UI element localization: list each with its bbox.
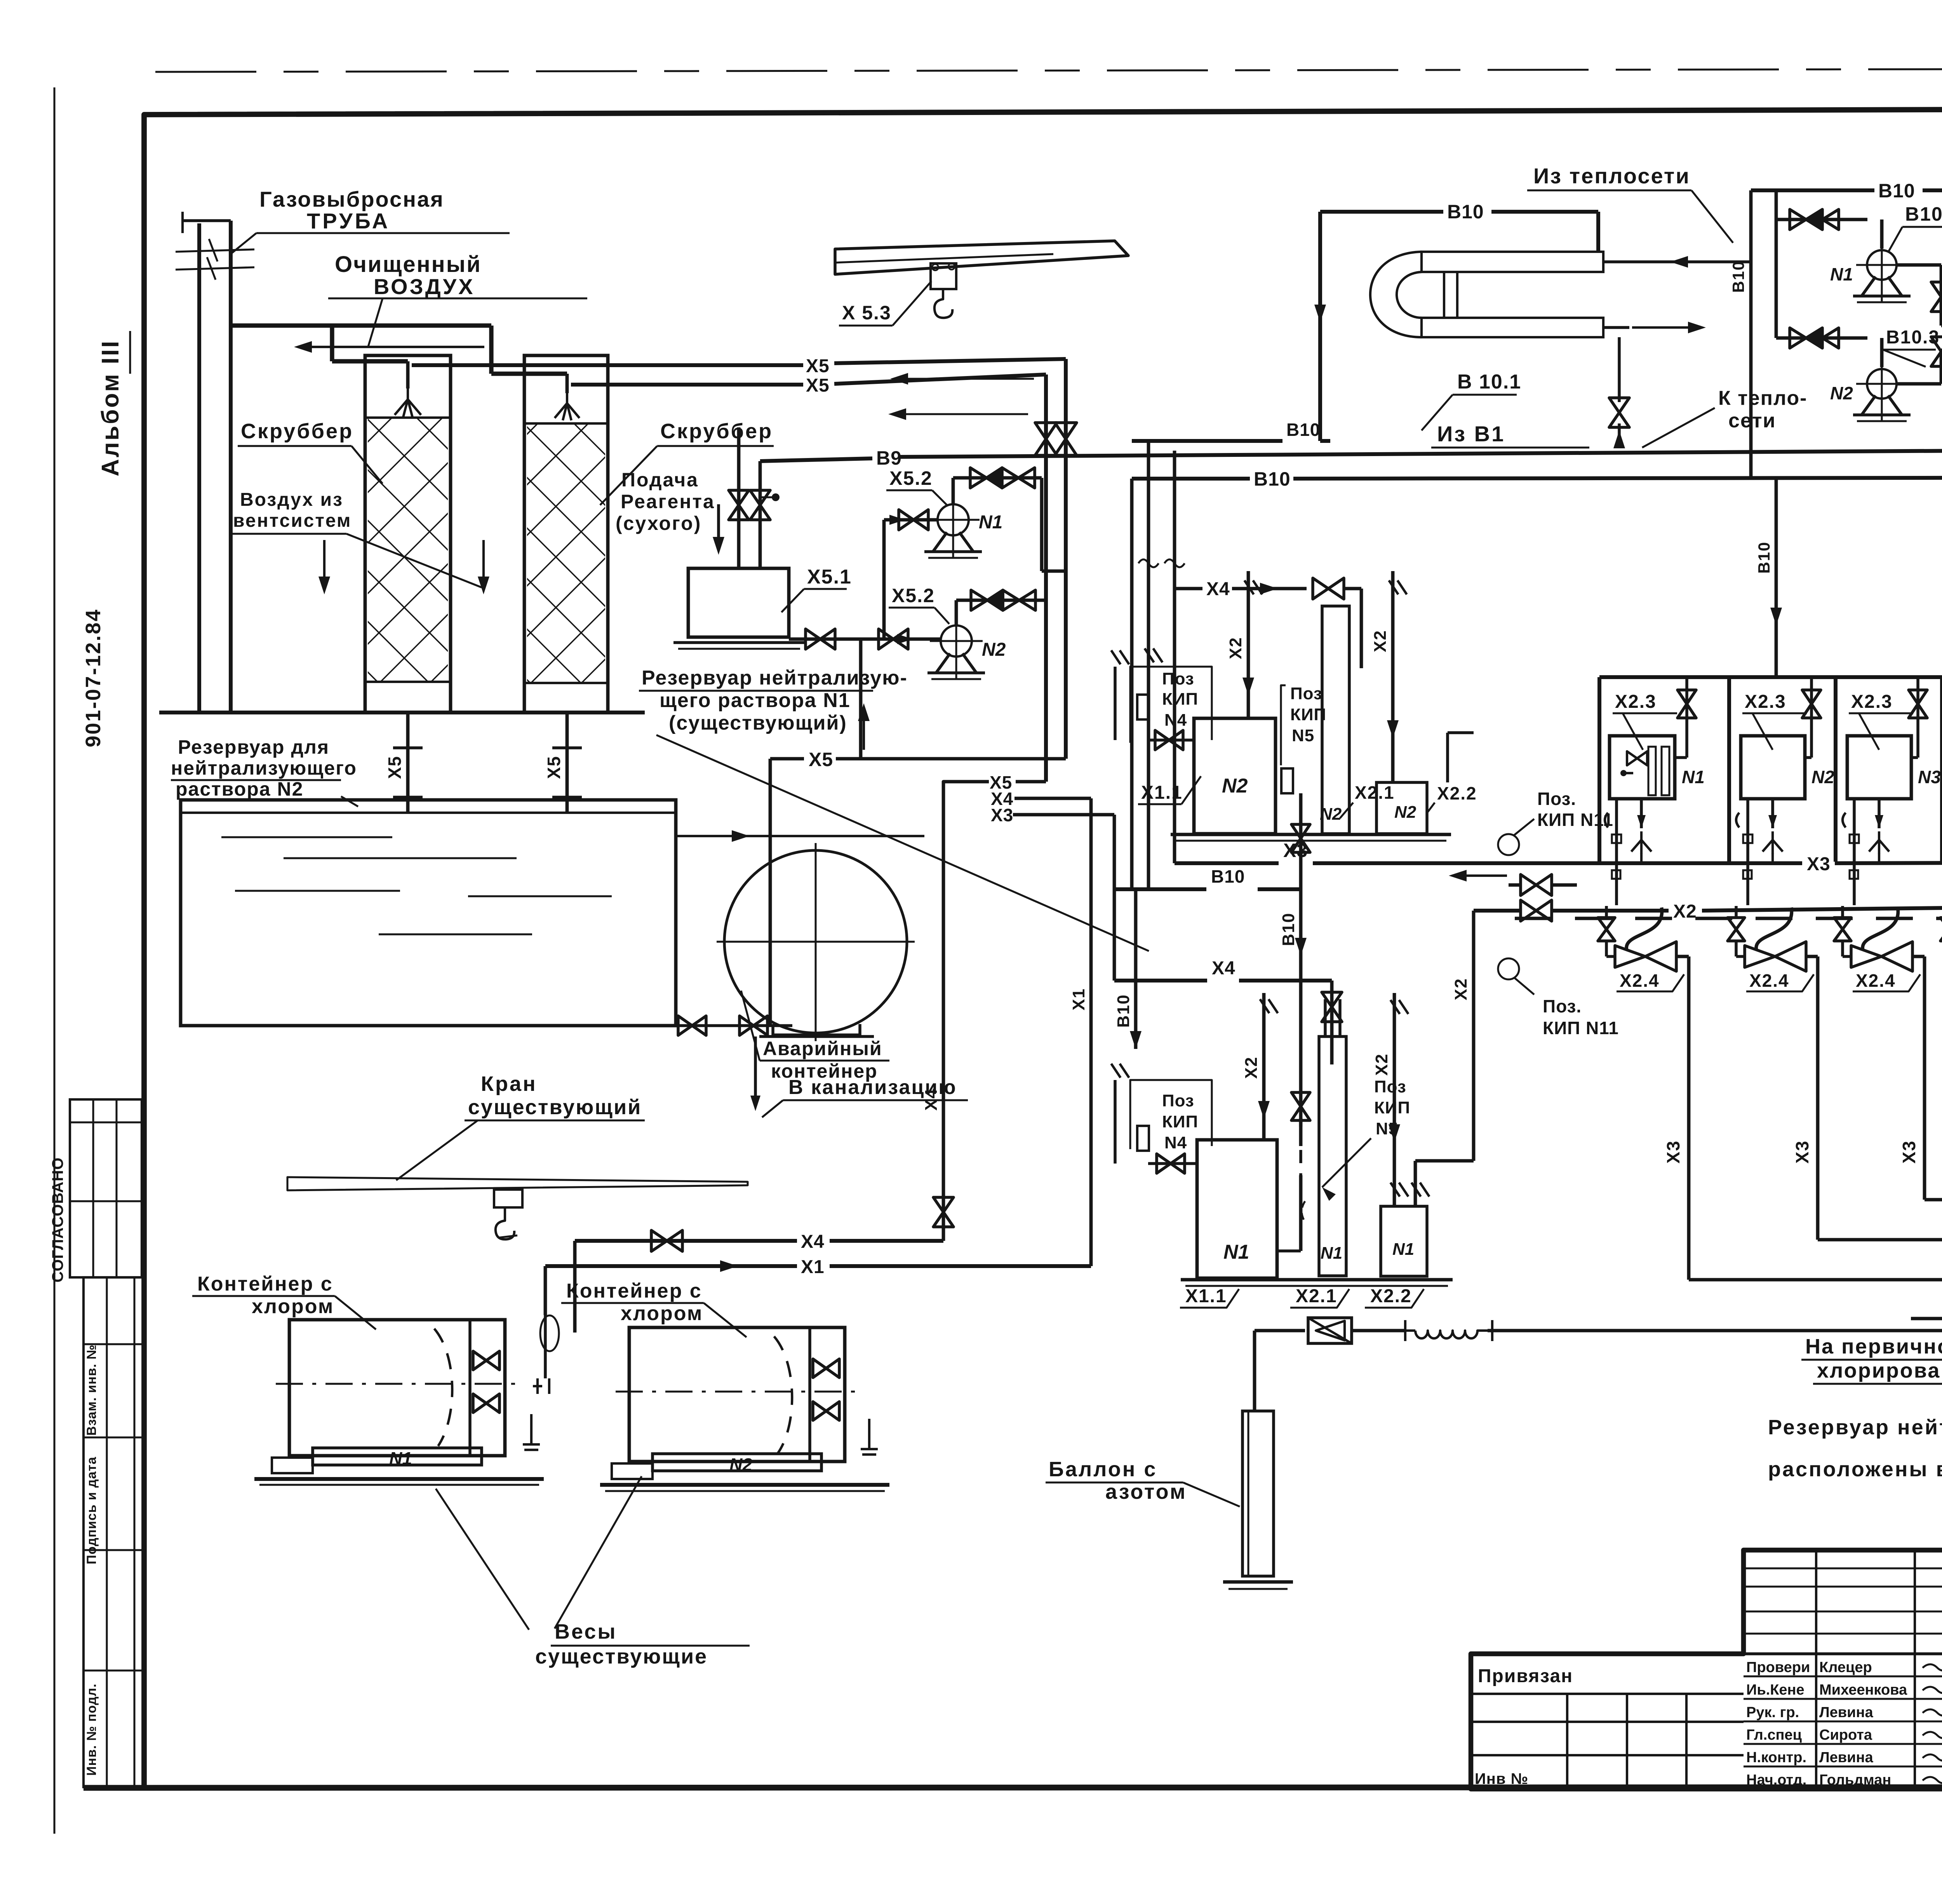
svg-text:На первичное: На первичное (1805, 1335, 1942, 1358)
svg-text:Из теплосети: Из теплосети (1533, 164, 1690, 188)
svg-text:В 10.1: В 10.1 (1457, 371, 1521, 393)
line X3 main (1175, 861, 1279, 865)
svg-text:Поз: Поз (1374, 1077, 1406, 1096)
tank X1.1 N1 lower (1197, 1140, 1277, 1278)
ground line under scrubbers (159, 711, 645, 714)
cell N3 X3-X2 connector (1850, 870, 1858, 879)
exchanger drain valve (1618, 337, 1621, 402)
pump N1 suction riser (882, 520, 886, 639)
svg-text:КИП: КИП (1374, 1098, 1410, 1117)
svg-text:N1: N1 (979, 512, 1002, 533)
valve pair B10.3 upper (1776, 218, 1867, 221)
riser B9 to X3 (1173, 451, 1176, 863)
jog from X2 riser into tank X2.2 lower (1415, 1159, 1474, 1163)
svg-text:В канализацию: В канализацию (788, 1076, 957, 1099)
svg-text:901-07-12.84: 901-07-12.84 (82, 608, 105, 747)
riser X2 to tank X1.1 lower (1262, 993, 1266, 1140)
svg-text:Резервуар нейтрализующего рас: Резервуар нейтрализующего раствора N2 и … (1768, 1416, 1942, 1439)
pump N2 discharge with valves (955, 600, 958, 625)
tank X5.1 feed arrow (717, 504, 720, 546)
flow arrow up on X5 (863, 712, 865, 750)
svg-text:Х2.3: Х2.3 (1851, 692, 1893, 712)
svg-text:Поз: Поз (1162, 669, 1194, 688)
riser X1 (1089, 798, 1093, 1266)
svg-text:Х3: Х3 (1663, 1140, 1683, 1164)
nitrogen cylinder (1242, 1411, 1274, 1576)
riser B10 down (1134, 889, 1138, 1049)
svg-text:Х1: Х1 (801, 1257, 825, 1277)
svg-text:Х4: Х4 (1212, 958, 1236, 979)
valve top cell N1 (1685, 677, 1688, 758)
valve under KIP N5 (1299, 793, 1303, 863)
pump N2 discharge valve (1897, 382, 1941, 386)
svg-text:N2: N2 (1394, 803, 1416, 822)
riser X2 long (1472, 911, 1476, 1161)
line X1 bottom (545, 1264, 797, 1268)
existing crane rail (287, 1177, 748, 1190)
pipe break marks (176, 249, 254, 252)
svg-text:Х2: Х2 (1242, 1056, 1261, 1079)
svg-text:Х3: Х3 (1807, 854, 1831, 874)
svg-text:В9: В9 (876, 447, 902, 469)
valve X3-X2 transfer 2 (1521, 900, 1552, 921)
svg-text:Контейнер с: Контейнер с (566, 1280, 702, 1302)
gas exhaust pipe (double riser) (197, 223, 201, 712)
ground under lower tanks (1181, 1278, 1453, 1282)
svg-text:Х5.1: Х5.1 (807, 566, 852, 588)
svg-text:Привязан: Привязан (1478, 1666, 1573, 1686)
svg-text:Провери: Провери (1746, 1659, 1810, 1676)
ejector X2.4 cell N3 (1851, 946, 1881, 967)
svg-text:В10: В10 (1755, 541, 1773, 573)
container drain line (676, 1024, 792, 1027)
cell N3 drop tube (1863, 908, 1898, 949)
svg-text:расположены вне здания.: расположены вне здания. (1768, 1458, 1942, 1481)
reservoir solution N2 tank (181, 800, 676, 1026)
ground under upper tanks (1171, 833, 1451, 836)
svg-text:Х2: Х2 (1371, 630, 1390, 652)
teploset inlet pipe (1603, 260, 1751, 263)
svg-text:раствора N2: раствора N2 (176, 778, 303, 800)
riser B10 center (1299, 863, 1303, 1146)
svg-text:Х2.3: Х2.3 (1615, 692, 1657, 712)
svg-text:В10: В10 (1114, 994, 1133, 1028)
svg-text:N1: N1 (1223, 1241, 1249, 1263)
svg-text:Подпись и дата: Подпись и дата (84, 1456, 99, 1564)
signature squiggles (1923, 1663, 1942, 1671)
svg-text:N2: N2 (1222, 775, 1248, 797)
trolley between containers (540, 1315, 559, 1351)
left strip lower boxes (84, 1277, 144, 1787)
svg-text:ВОЗДУХ: ВОЗДУХ (374, 274, 475, 299)
svg-text:Х5: Х5 (806, 375, 830, 396)
svg-text:Взам. инв. №: Взам. инв. № (84, 1344, 99, 1435)
svg-text:Х5.2: Х5.2 (892, 585, 935, 606)
pump X5.2 N2 (941, 625, 972, 657)
svg-text:(существующий): (существующий) (669, 712, 847, 734)
heat exchanger supply riser (1318, 212, 1322, 441)
left strip upper boxes (70, 1099, 142, 1277)
pump B10 N2 (1880, 338, 1884, 367)
svg-text:Из В1: Из В1 (1437, 422, 1505, 446)
svg-text:В10: В10 (1211, 866, 1245, 887)
line B10 into tank B10.2 (1941, 324, 1942, 327)
svg-text:хлором: хлором (252, 1295, 334, 1318)
svg-text:N1: N1 (1682, 767, 1705, 787)
svg-text:Х2: Х2 (1673, 901, 1697, 922)
svg-text:КИП: КИП (1162, 1112, 1198, 1131)
line X5 upper (412, 363, 803, 367)
chlorinator cell N4 frame (1940, 677, 1942, 862)
outer thin left border (54, 87, 56, 1834)
svg-text:Весы: Весы (555, 1620, 617, 1643)
svg-text:КИП N11: КИП N11 (1543, 1018, 1619, 1038)
valve top cell N2 (1810, 677, 1813, 758)
frame bottom line (84, 1787, 1942, 1788)
instrument box KIP N4 upper (1130, 667, 1212, 743)
svg-text:Х2.2: Х2.2 (1370, 1286, 1412, 1306)
outer thin top border (dashed) (155, 68, 1942, 72)
tank X5.1 outlet line (789, 638, 941, 641)
scrubber column 1 (365, 355, 451, 712)
flex coil (1404, 1320, 1406, 1341)
gauge KIP N11 upper (1498, 834, 1519, 855)
svg-text:Инв. № подл.: Инв. № подл. (84, 1683, 99, 1776)
riser B10 upper (1147, 441, 1150, 889)
svg-text:хлорирование: хлорирование (1817, 1359, 1942, 1382)
ejector X2.4 cell N2 (1745, 946, 1775, 967)
instrument box KIP N4 lower (1130, 1080, 1212, 1149)
svg-text:КИП N11: КИП N11 (1537, 810, 1613, 830)
svg-text:Х2.1: Х2.1 (1355, 782, 1395, 803)
wire pipe to scrubbers (231, 323, 491, 327)
svg-text:Иь.Кене: Иь.Кене (1746, 1682, 1805, 1698)
svg-text:Подача: Подача (621, 469, 699, 491)
valve drop cell N3 (1841, 906, 1844, 918)
pump B10 N1 (1880, 219, 1884, 249)
valve pump N2 suction (879, 629, 908, 649)
line E2 mid (1352, 1329, 1405, 1333)
valve on X5 riser 1 (1055, 423, 1077, 455)
svg-text:хлором: хлором (621, 1302, 703, 1325)
chlorinator N3 tank (1847, 736, 1911, 799)
valve pair B10.3 lower (1776, 336, 1867, 340)
nitrogen cylinder riser (1253, 1331, 1256, 1411)
X5 flow arrows (899, 378, 1034, 380)
scrubber column 2 (524, 355, 608, 712)
svg-text:Поз.: Поз. (1537, 789, 1576, 809)
title block annex rows (1471, 1693, 1744, 1695)
svg-text:Х5: Х5 (809, 749, 833, 770)
svg-text:Х2.4: Х2.4 (1620, 970, 1660, 991)
tank X5.1 feed pipes with valves (737, 427, 741, 568)
tank X2.1 N1 lower narrow (1319, 1036, 1346, 1276)
cell N1 X3-X2 connector (1612, 870, 1620, 879)
svg-text:(сухого): (сухого) (616, 512, 701, 534)
title block outline (1471, 1550, 1942, 1789)
svg-text:Аварийный: Аварийный (763, 1038, 882, 1059)
svg-text:Клецер: Клецер (1819, 1659, 1872, 1676)
chlorine container N2 (629, 1327, 845, 1462)
valve on B10 center riser (1291, 1092, 1310, 1120)
X5 drop pipe left (406, 712, 410, 813)
pump N1 discharge valve (1897, 263, 1941, 267)
svg-text:Очищенный: Очищенный (335, 252, 482, 277)
svg-text:N3: N3 (1918, 767, 1941, 787)
cell N2 X3-X2 connector (1743, 870, 1752, 879)
riser X2 into tank X2.2 upper (1391, 571, 1395, 782)
crane trolley and hook (494, 1190, 522, 1207)
teploset outlet arrow (1603, 326, 1629, 329)
chlorinator N2 tank (1741, 736, 1805, 799)
X5 riser right 1 (1064, 359, 1068, 759)
cylinder ground (1223, 1580, 1293, 1584)
svg-text:N1: N1 (1321, 1244, 1342, 1263)
svg-text:В10: В10 (1279, 913, 1298, 946)
chlorinator N1 spray unit (1615, 799, 1618, 862)
scrubber 2 spray nozzle (555, 393, 579, 420)
cell N2 drop tube (1756, 908, 1792, 949)
svg-text:В10 3: В10 3 (1905, 203, 1942, 225)
tank X2.2 side pipe (1446, 733, 1449, 782)
ejector outlet cell N2 (1806, 955, 1818, 958)
svg-text:Х2.4: Х2.4 (1856, 970, 1896, 991)
ejector outlet cell N3 (1912, 955, 1925, 958)
line X4 upper (1175, 587, 1202, 591)
svg-text:В10: В10 (1286, 420, 1320, 440)
svg-text:Х5.2: Х5.2 (889, 467, 933, 489)
bundle elbow X4 down (943, 782, 989, 1241)
junction X4 valve (1318, 979, 1332, 982)
monorail beam (835, 241, 1128, 274)
chlorinator N3 spray unit (1853, 799, 1856, 862)
svg-text:Михеенкова: Михеенкова (1819, 1682, 1907, 1698)
svg-text:N2: N2 (982, 639, 1006, 660)
svg-text:Х3: Х3 (1283, 840, 1308, 861)
svg-text:Воздух из: Воздух из (240, 490, 343, 510)
svg-text:Поз: Поз (1162, 1091, 1194, 1110)
clean air flow arrow (303, 346, 484, 348)
svg-text:Х4: Х4 (801, 1232, 825, 1252)
svg-text:Кран: Кран (481, 1072, 537, 1096)
svg-text:нейтрализующего: нейтрализующего (171, 757, 357, 779)
svg-text:N2: N2 (1830, 383, 1853, 403)
svg-text:Альбом III: Альбом III (97, 340, 124, 476)
svg-text:N1: N1 (1830, 264, 1853, 284)
line B10 long (1132, 477, 1250, 481)
pump N1 discharge with valves (952, 478, 955, 504)
gauge KIP N11 lower (1498, 958, 1519, 979)
line E2 nitrogen (1255, 1329, 1305, 1333)
svg-text:СОГЛАСОВАНО: СОГЛАСОВАНО (49, 1157, 66, 1282)
check valve (1308, 1318, 1352, 1343)
line B10 exchanger top (1320, 210, 1443, 214)
svg-text:Х1.1: Х1.1 (1185, 1286, 1227, 1306)
tank X2.2 N2 (1376, 782, 1427, 834)
svg-text:существующий: существующий (468, 1096, 642, 1119)
line B10 top right (1751, 188, 1874, 192)
outlet riser to X5 line (859, 639, 863, 759)
valve on X4 riser (933, 1197, 954, 1227)
valve on X5 riser 2 (1035, 423, 1057, 455)
svg-text:Х1.1: Х1.1 (1141, 782, 1183, 803)
svg-text:существующие: существующие (535, 1645, 708, 1668)
container N1 scale platform (313, 1448, 482, 1465)
riser X2 to tank X2.2 lower (1393, 993, 1396, 1206)
svg-text:Х2.1: Х2.1 (1296, 1286, 1337, 1306)
scrubber 1 spray nozzle (395, 388, 421, 417)
hoist trolley X5.3 (931, 263, 956, 289)
svg-text:КИП: КИП (1162, 690, 1198, 709)
svg-text:N5: N5 (1292, 726, 1314, 745)
container N2 scale platform (653, 1454, 821, 1471)
svg-text:Н.контр.: Н.контр. (1746, 1749, 1806, 1766)
svg-text:Контейнер с: Контейнер с (197, 1273, 333, 1295)
reservoir overflow line (676, 835, 924, 837)
svg-text:Х2: Х2 (1451, 978, 1470, 1000)
svg-text:Сирота: Сирота (1819, 1727, 1872, 1743)
riser B10 to chlorinator bank (1775, 477, 1778, 677)
tank X5.1 (688, 568, 789, 637)
svg-text:В10: В10 (1729, 260, 1747, 293)
line X5 lower (571, 383, 803, 387)
svg-text:В10: В10 (1878, 180, 1915, 202)
svg-text:ТРУБА: ТРУБА (307, 209, 390, 233)
svg-text:В10: В10 (1254, 468, 1291, 490)
chlorinator N1 tank (1610, 736, 1675, 799)
svg-text:Х3: Х3 (1899, 1140, 1919, 1164)
svg-text:В10: В10 (1447, 201, 1484, 223)
line X4 bottom (575, 1239, 797, 1243)
svg-text:Резервуар нейтрализую-: Резервуар нейтрализую- (642, 667, 908, 689)
line X5 from tank bottom (770, 757, 804, 761)
line X2 manifold (1474, 909, 1521, 913)
tank X1.1 N2 (1194, 718, 1276, 834)
drain to sewer (754, 1036, 757, 1106)
svg-text:Х5: Х5 (806, 356, 830, 376)
svg-text:Поз.: Поз. (1543, 996, 1582, 1016)
svg-text:Х4: Х4 (1206, 579, 1230, 599)
line E2 right (1488, 1329, 1942, 1333)
valve KIP N4 lower (1148, 1162, 1197, 1165)
line B10 to heat exchanger (1132, 439, 1282, 443)
X5 riser right 2 (1044, 375, 1048, 782)
svg-text:щего раствора N1: щего раствора N1 (660, 689, 851, 712)
tank X5.1 base (673, 641, 804, 644)
svg-text:N4: N4 (1164, 1133, 1187, 1152)
emergency container base (773, 1024, 860, 1035)
svg-text:N4: N4 (1164, 711, 1187, 730)
svg-text:Резервуар для: Резервуар для (178, 736, 329, 758)
valve top cell N3 (1916, 677, 1919, 758)
chlorinator cell N1 frame (1597, 677, 1601, 862)
heat exchanger U-tube B10.1 (1422, 252, 1603, 272)
chlorinator N2 spray unit (1746, 799, 1749, 862)
svg-text:Скруббер: Скруббер (660, 420, 773, 443)
emergency container circle (724, 850, 907, 1033)
dashed line X2 drain manifold (1515, 917, 1942, 920)
svg-text:Рук. гр.: Рук. гр. (1746, 1704, 1799, 1721)
stand right of container N2 (861, 1419, 878, 1455)
chlorine container N1 (289, 1320, 505, 1456)
reservoir water level marks (221, 836, 392, 838)
container N1 ground (254, 1477, 544, 1481)
valve drop cell N2 (1735, 906, 1738, 918)
svg-text:Реагента: Реагента (621, 491, 715, 512)
svg-text:вентсистем: вентсистем (233, 510, 352, 531)
X5 drop pipe right (566, 712, 569, 813)
ejector outlet cell N1 (1676, 955, 1689, 958)
title block signature columns (1815, 1550, 1817, 1789)
svg-text:Гольдман: Гольдман (1819, 1772, 1891, 1788)
valve X3-X2 transfer 1 (1521, 874, 1552, 895)
riser B10 from teploset (1749, 190, 1753, 477)
svg-text:Х2.3: Х2.3 (1745, 692, 1786, 712)
valve tank X5.1 outlet (806, 629, 835, 649)
valve KIP N4 upper (1148, 739, 1194, 742)
ejector X2.4 cell N1 (1615, 946, 1645, 967)
svg-text:Инв №: Инв № (1475, 1770, 1528, 1787)
svg-text:N2: N2 (729, 1455, 752, 1475)
svg-text:азотом: азотом (1105, 1480, 1187, 1503)
valve drop cell N1 (1605, 906, 1608, 918)
svg-text:Х2.4: Х2.4 (1749, 970, 1789, 991)
chlorinator bank header line B10 (1599, 675, 1942, 679)
svg-text:Баллон с: Баллон с (1049, 1458, 1157, 1481)
svg-text:Левина: Левина (1819, 1704, 1873, 1721)
svg-text:Х2.2: Х2.2 (1437, 783, 1477, 803)
svg-text:Нач.отд.: Нач.отд. (1746, 1772, 1806, 1788)
cell N1 drop tube (1627, 908, 1662, 949)
svg-text:Гл.спец: Гл.спец (1746, 1727, 1802, 1743)
svg-text:Поз: Поз (1290, 684, 1323, 703)
svg-text:Х3: Х3 (1792, 1140, 1812, 1164)
svg-text:Х2: Х2 (1226, 637, 1245, 659)
svg-text:Х1: Х1 (1069, 988, 1088, 1010)
line X4 manifold (1114, 979, 1207, 982)
risers to pumps join (1775, 190, 1778, 338)
riser to X4 manifold (1113, 815, 1116, 981)
pump X5.2 N1 (938, 504, 969, 535)
line B9 (760, 458, 872, 461)
svg-text:Левина: Левина (1819, 1749, 1873, 1766)
svg-text:Х2: Х2 (1372, 1053, 1391, 1076)
svg-text:Х5: Х5 (544, 756, 564, 779)
riser X2 into tank X1.1 upper (1247, 571, 1250, 718)
line B10 manifold (1114, 887, 1206, 891)
svg-text:N2: N2 (1320, 805, 1342, 824)
tank X2.2 N1 lower (1381, 1206, 1427, 1276)
arrow into brace extra (1911, 1317, 1942, 1320)
svg-text:N2: N2 (1811, 767, 1834, 787)
svg-text:К тепло-: К тепло- (1718, 387, 1807, 409)
X3 flow arrow (1458, 874, 1507, 877)
chlorinator cell N3 frame (1834, 677, 1838, 862)
svg-text:Х 5.3: Х 5.3 (842, 302, 891, 324)
svg-text:N1: N1 (1392, 1240, 1414, 1259)
svg-text:N1: N1 (389, 1448, 412, 1469)
container N2 ground (600, 1483, 889, 1487)
tank X2.1 narrow vessel (1322, 606, 1349, 834)
svg-text:Газовыбросная: Газовыбросная (259, 187, 444, 211)
svg-text:Х3: Х3 (991, 805, 1013, 825)
air inlet arrows (323, 540, 325, 585)
valve pump N1 suction (899, 510, 928, 530)
svg-text:Х5: Х5 (385, 756, 405, 779)
chlorinator cell N2 frame (1727, 677, 1731, 862)
svg-text:Скруббер: Скруббер (241, 420, 353, 443)
